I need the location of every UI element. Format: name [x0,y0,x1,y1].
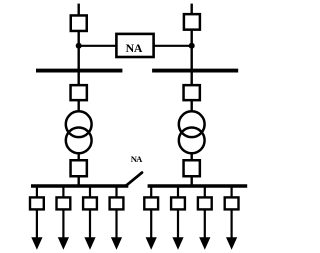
busbar lower left [31,184,128,188]
busbar lower right [148,184,248,188]
node junction right [189,43,195,49]
wire right column upper [190,31,192,73]
wire incoming source 2 (right stub) [190,4,192,14]
wire to transformer T2 [190,101,192,113]
wire tie right [154,45,192,47]
wire to transformer T1 [77,101,79,113]
wire left column upper [77,32,79,73]
node junction left [76,43,82,49]
tie breaker NA box [116,34,153,57]
feeder 7 [198,187,212,250]
wire to lower right busbar [190,177,192,187]
wire to lower left busbar [77,177,79,187]
wire transformer T2 to breaker [190,153,192,160]
svg-text:NA: NA [131,154,143,164]
wire incoming source 1 (left stub) [77,4,79,15]
transformer T2 [179,111,205,153]
breaker QF1 (left incoming square) [71,15,87,31]
feeder 6 [171,187,185,250]
wire left busbar to breaker [77,72,79,85]
busbar upper right [152,69,238,73]
wire transformer T1 to breaker [77,153,79,160]
feeder 8 [225,187,239,250]
breaker QF4 (right transformer HV square) [184,85,200,100]
feeder 2 [57,187,71,250]
feeder 4 [110,187,124,250]
wire right busbar to breaker [190,72,192,85]
feeder 3 [83,187,97,250]
transformer T1 [66,111,92,153]
breaker QF2 (right incoming square) [184,14,200,30]
breaker QF6 (right transformer LV square) [184,160,200,176]
wire tie left [79,45,116,47]
svg-text:NA: NA [126,41,143,55]
feeder 5 [144,187,158,250]
busbar upper left [36,69,122,73]
breaker QF5 (left transformer LV square) [71,160,87,176]
breaker QF3 (left transformer HV square) [71,85,87,100]
feeder 1 [30,187,44,250]
tie switch blade (open) [127,173,142,186]
